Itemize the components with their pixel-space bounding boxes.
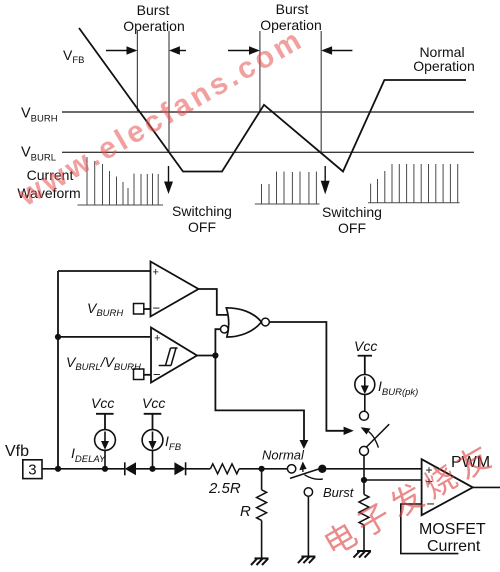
- wire R2 to ground: [363, 525, 365, 551]
- wire gridline burst1 start: [136, 31, 138, 112]
- node U3 output bubble: [262, 318, 270, 326]
- node U2 output junction: [212, 352, 218, 358]
- switch SW1 burst contact: [304, 488, 312, 496]
- svg-text:3: 3: [28, 462, 36, 479]
- svg-text:Operation: Operation: [413, 58, 474, 74]
- wire I_BUR to switch SW2: [364, 395, 366, 412]
- node I_FB junction: [149, 466, 155, 472]
- wire gridline burst2 start: [259, 31, 261, 112]
- wire arrow out of burst1 right: [169, 46, 186, 54]
- wire arrowhead down at normal switch: [300, 440, 309, 449]
- resistor 2.5R: [210, 464, 239, 474]
- op-amp U4 PWM comparator: [422, 459, 473, 515]
- svg-text:VBURH: VBURH: [21, 106, 58, 125]
- switch SW1 blade: [290, 467, 325, 479]
- svg-text:Switching: Switching: [322, 204, 382, 220]
- current source I_BUR(pk): [355, 375, 375, 395]
- ground under burst contact: [298, 557, 316, 564]
- node Vfb bus junction left: [55, 466, 61, 472]
- wire switching off arrow 2: [321, 166, 330, 194]
- node I_DELAY junction: [102, 466, 108, 472]
- wire I_FB to bus: [152, 450, 154, 468]
- switch SW1 normal contact: [287, 465, 295, 473]
- wire U1 output to NOR: [199, 289, 229, 315]
- label Burst Operation 1: [123, 2, 184, 34]
- node V_BURH threshold line: [62, 111, 474, 113]
- node bus2 junction: [361, 477, 367, 483]
- wire gridline burst2 end: [320, 31, 322, 152]
- waveform section: [62, 31, 474, 152]
- svg-text:VBURH: VBURH: [87, 300, 123, 319]
- svg-text:2.5R: 2.5R: [208, 480, 241, 497]
- pin 3 box: [23, 460, 42, 479]
- wire I_DELAY to bus: [104, 450, 106, 468]
- component V_BURL source box: [134, 369, 144, 380]
- switch SW2 motion arc with arrowhead: [369, 432, 379, 448]
- label MOSFET Current: [419, 521, 486, 555]
- wire arrow out of burst2 right: [321, 46, 352, 54]
- wire bus2 to PWM plus2: [364, 479, 422, 481]
- wire comparator U1 plus input: [58, 270, 150, 272]
- wire Vfb bus: [42, 468, 210, 470]
- svg-text:Operation: Operation: [123, 18, 184, 34]
- svg-text:Vfb: Vfb: [5, 443, 29, 460]
- switch SW2 blade: [366, 424, 389, 447]
- current source I_DELAY: [95, 430, 116, 451]
- ground under R: [251, 558, 269, 565]
- svg-text:Vcc: Vcc: [142, 395, 165, 411]
- switch SW1 motion arc: [305, 475, 323, 480]
- component V_BURH source box: [134, 304, 144, 315]
- svg-text:VBURL: VBURL: [21, 145, 56, 164]
- wire arrow into burst2 left: [228, 46, 260, 54]
- wire MOSFET current sense input: [401, 504, 459, 554]
- current pulse train 2: [255, 172, 320, 205]
- wire switching off arrow 1: [164, 166, 173, 194]
- circuit section: [58, 262, 304, 469]
- current pulse train 1: [78, 157, 164, 205]
- svg-text:IDELAY: IDELAY: [71, 445, 106, 465]
- wire bus to PWM plus1: [327, 468, 422, 470]
- svg-text:Burst: Burst: [137, 2, 170, 18]
- resistor R2 sense: [359, 494, 369, 525]
- switch SW2 top contact: [360, 411, 369, 420]
- svg-text:OFF: OFF: [188, 219, 216, 235]
- svg-text:Burst: Burst: [276, 1, 309, 17]
- svg-text:+: +: [154, 333, 160, 345]
- wire PWM output: [473, 486, 500, 488]
- svg-text:Burst: Burst: [323, 485, 355, 500]
- svg-text:IBUR(pk): IBUR(pk): [378, 378, 418, 398]
- wire V_BURH box to U1 minus: [144, 308, 151, 310]
- svg-text:+: +: [153, 267, 159, 279]
- node R divider junction: [259, 466, 265, 472]
- node U3 input bubble: [221, 325, 229, 333]
- wire NOR output to IBUR switch: [269, 322, 344, 431]
- svg-text:−: −: [153, 301, 161, 316]
- diode D2 pointing right: [174, 462, 185, 475]
- svg-text:IFB: IFB: [165, 433, 182, 453]
- wire SW2 to bus2 node: [363, 455, 365, 480]
- node V_FB waveform trace: [79, 28, 466, 172]
- power Vcc bar 3: [358, 356, 372, 375]
- node SW1 common: [318, 465, 326, 473]
- node V_BURL threshold line: [62, 151, 474, 153]
- wire comparator U2 plus input: [58, 336, 150, 338]
- wire gridline burst1 end: [168, 31, 170, 152]
- wire R to ground: [261, 520, 263, 558]
- wire 2.5R to switch: [239, 468, 287, 470]
- current pulse train 3: [368, 164, 460, 203]
- gate U3 NOR body: [226, 308, 261, 337]
- svg-text:MOSFET: MOSFET: [419, 521, 486, 538]
- wire U2 output to node: [197, 355, 215, 357]
- power Vcc bar 2: [144, 414, 162, 430]
- op-amp U1 comparator body: [151, 262, 199, 317]
- wire V_BURL box to U2 minus: [144, 374, 151, 376]
- svg-text:−: −: [153, 367, 161, 382]
- wire junction to resistor R: [261, 469, 263, 490]
- hysteresis symbol U2: [159, 348, 178, 366]
- wire left bus vertical: [57, 271, 59, 469]
- power Vcc bar 1: [96, 414, 114, 430]
- label Burst Operation 2: [260, 1, 321, 33]
- label Switching OFF 1: [172, 203, 232, 235]
- current source I_FB: [142, 430, 163, 451]
- svg-text:Vcc: Vcc: [91, 395, 114, 411]
- wire node down to normal arrow: [215, 356, 304, 442]
- ground under R2: [354, 551, 372, 558]
- wire arrow into burst1 left: [106, 46, 137, 54]
- diode D1 pointing left: [125, 462, 136, 475]
- svg-text:Vcc: Vcc: [354, 338, 377, 354]
- wire burst contact to ground: [307, 496, 309, 556]
- label Current Waveform: [17, 167, 80, 201]
- switch SW1 arrow: [299, 462, 306, 473]
- svg-text:Normal: Normal: [262, 448, 305, 463]
- wire node to NOR lower input: [215, 329, 220, 355]
- svg-text:VBURL/VBURH: VBURL/VBURH: [66, 354, 141, 373]
- op-amp U2 comparator body: [151, 328, 197, 383]
- label Normal Operation: [413, 44, 474, 74]
- svg-text:VFB: VFB: [63, 47, 84, 66]
- node left bus junction at U2 input: [55, 334, 61, 340]
- wire node to resistor R2: [363, 480, 365, 494]
- svg-text:Switching: Switching: [172, 203, 232, 219]
- svg-text:Current: Current: [427, 538, 481, 555]
- svg-text:OFF: OFF: [338, 220, 366, 236]
- label Switching OFF 2: [322, 204, 382, 236]
- switch SW2 bottom contact: [360, 446, 369, 455]
- wire arrowhead at IBUR switch: [344, 427, 354, 435]
- resistor R: [257, 490, 267, 521]
- svg-text:R: R: [240, 503, 251, 520]
